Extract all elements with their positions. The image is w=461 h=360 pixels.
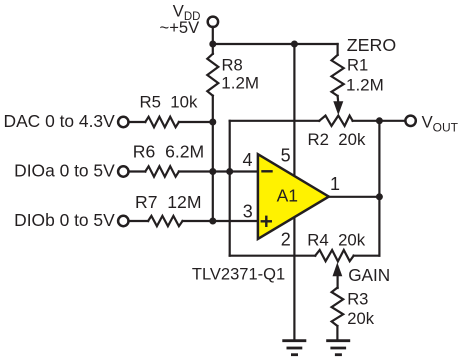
label R5 value (140, 92, 198, 111)
label R4 value (307, 231, 365, 250)
svg-text:GAIN: GAIN (348, 265, 390, 285)
label R6 value (133, 142, 204, 162)
node output junction (376, 193, 383, 200)
svg-text:3: 3 (243, 201, 253, 221)
terminal DIOb input (118, 216, 128, 226)
wire output (329, 196, 380, 198)
svg-text:DAC 0 to 4.3V: DAC 0 to 4.3V (4, 111, 116, 131)
resistor R5 (145, 117, 179, 127)
label R7 value (135, 192, 202, 212)
op-amp minus sign (263, 170, 272, 172)
resistor R1 (332, 55, 344, 96)
wire feedback top edge (230, 120, 320, 122)
ground left (284, 341, 305, 355)
pin 4 (243, 150, 253, 170)
svg-text:20k: 20k (347, 309, 374, 328)
pin 2 (281, 230, 291, 250)
ground right (328, 341, 349, 355)
wire R1 top lead (337, 44, 339, 55)
resistor R4 (315, 250, 353, 261)
label VOUT (422, 112, 459, 134)
label R3 (347, 290, 368, 309)
wire noninverting input (183, 220, 259, 222)
label DIOb input (14, 210, 115, 230)
pin 3 (243, 201, 253, 221)
svg-text:1: 1 (330, 174, 340, 194)
label A1 (277, 186, 298, 206)
wire DIOa lead (129, 170, 146, 172)
node DIOa junction (209, 168, 216, 175)
wire R1 wiper arrow (333, 96, 343, 115)
label R8 (222, 56, 243, 75)
svg-text:R2 20k: R2 20k (308, 130, 366, 149)
terminal VDD (208, 17, 218, 27)
wire DIOb lead (129, 220, 149, 222)
resistor R6 (145, 166, 179, 176)
svg-text:1.2M: 1.2M (346, 75, 384, 94)
svg-text:5: 5 (281, 145, 291, 165)
svg-text:R8: R8 (222, 56, 243, 75)
label TLV2371-Q1 (192, 265, 285, 283)
label R2 value (308, 130, 366, 149)
svg-text:R1: R1 (347, 55, 368, 74)
op-amp A1 (258, 154, 329, 239)
svg-text:DIOa 0 to 5V: DIOa 0 to 5V (14, 160, 115, 180)
wire output column (378, 121, 380, 256)
wire R4 wiper arrow (333, 262, 343, 288)
resistor R3 (332, 288, 344, 326)
svg-text:~+5V: ~+5V (160, 18, 200, 37)
svg-text:VOUT: VOUT (422, 112, 459, 134)
svg-text:DIOb 0 to 5V: DIOb 0 to 5V (14, 210, 115, 230)
wire R3 bottom lead (336, 326, 338, 341)
svg-text:4: 4 (243, 150, 253, 170)
svg-text:R7 12M: R7 12M (135, 192, 202, 212)
wire R2 to VOUT (353, 120, 406, 122)
wire summing column (212, 96, 214, 221)
wire top rail (213, 43, 338, 45)
label ZERO (347, 35, 396, 55)
svg-text:A1: A1 (277, 186, 298, 206)
svg-text:R6 6.2M: R6 6.2M (133, 142, 204, 162)
wire feedback left edge (229, 121, 231, 256)
wire feedback bottom edge (230, 255, 316, 257)
terminal DAC input (118, 117, 128, 127)
op-amp plus sign (262, 217, 271, 226)
pin 5 (281, 145, 291, 165)
label R1 (347, 55, 368, 74)
node DAC junction (209, 119, 216, 126)
svg-text:R4 20k: R4 20k (307, 231, 365, 250)
resistor R8 (207, 54, 218, 96)
wire R4 right lead (354, 255, 380, 257)
pin 1 (330, 174, 340, 194)
node power branch junction (291, 41, 298, 48)
label 1.2M R8 (221, 74, 259, 93)
wire R5 to node (179, 121, 213, 123)
label GAIN (348, 265, 390, 285)
wire power upper segment (293, 44, 295, 176)
svg-text:2: 2 (281, 230, 291, 250)
svg-text:R5 10k: R5 10k (140, 92, 198, 111)
resistor R7 (148, 216, 182, 226)
label VDD (173, 2, 201, 24)
terminal VOUT (405, 116, 415, 126)
svg-text:ZERO: ZERO (347, 35, 396, 55)
node DIOb junction (209, 218, 216, 225)
svg-text:1.2M: 1.2M (221, 74, 259, 93)
label 20k R3 (347, 309, 374, 328)
resistor R2 (319, 116, 352, 126)
label DIOa input (14, 160, 115, 180)
wire power lower segment (293, 215, 295, 341)
wire inverting input (179, 170, 258, 172)
label ~+5V (160, 18, 200, 37)
wire R8 top lead (212, 44, 214, 54)
wire DAC lead (129, 121, 146, 123)
svg-text:TLV2371-Q1: TLV2371-Q1 (192, 265, 285, 283)
node VDD rail junction (209, 41, 216, 48)
node VOUT junction (376, 117, 383, 124)
terminal DIOa input (118, 166, 128, 176)
svg-text:R3: R3 (347, 290, 368, 309)
node feedback junction (226, 168, 233, 175)
wire VDD stem (212, 27, 214, 44)
label 1.2M R1 (346, 75, 384, 94)
label DAC input (4, 111, 116, 131)
